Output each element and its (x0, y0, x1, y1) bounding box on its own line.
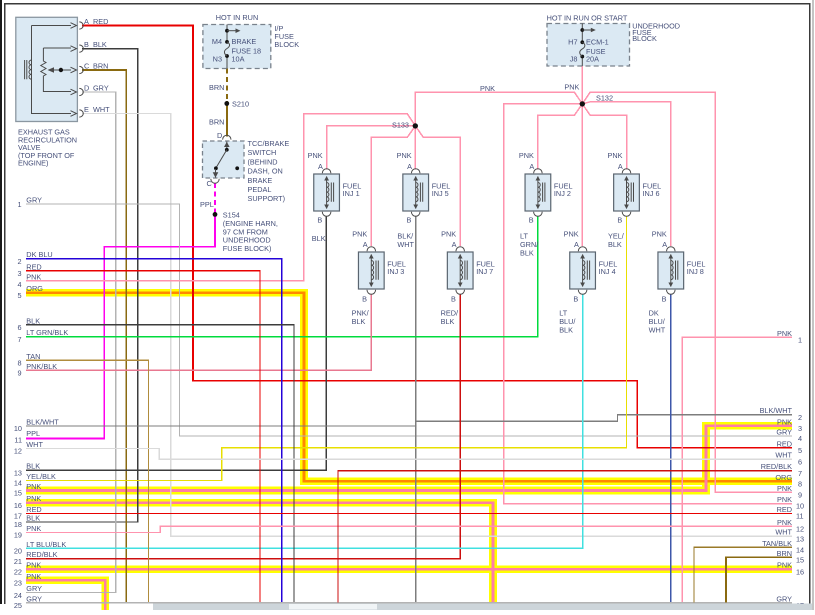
svg-text:B: B (317, 215, 322, 224)
svg-text:A: A (84, 17, 89, 26)
wire RED/BLK right7 (338, 471, 792, 603)
svg-text:S132: S132 (596, 94, 613, 103)
svg-text:PNK: PNK (26, 561, 41, 570)
wire PNK right1 (682, 337, 792, 602)
svg-text:SUPPORT): SUPPORT) (248, 194, 286, 203)
svg-text:15: 15 (14, 489, 22, 498)
svg-text:DK BLU: DK BLU (26, 250, 52, 259)
fuel injector INJ 3 (358, 247, 384, 295)
svg-text:PNK: PNK (26, 482, 41, 491)
svg-text:20: 20 (14, 547, 22, 556)
svg-text:PNK: PNK (441, 229, 456, 238)
svg-text:C: C (207, 179, 212, 188)
EGR wiper arm with arrow (50, 69, 72, 71)
svg-text:PEDAL: PEDAL (248, 185, 272, 194)
svg-text:13: 13 (796, 534, 804, 543)
svg-text:BLK: BLK (352, 317, 366, 326)
svg-text:HOT IN RUN: HOT IN RUN (216, 13, 258, 22)
EGR solenoid valve box (16, 17, 84, 121)
splice S132 (413, 123, 418, 128)
fuel injector INJ 8 (658, 247, 684, 295)
fuel injector INJ 7 (447, 247, 473, 295)
wire PPL S154 to left wire 11 PPL (26, 214, 215, 438)
switch pin C arc (211, 179, 219, 183)
svg-text:7: 7 (17, 335, 21, 344)
svg-text:WHT: WHT (775, 528, 792, 537)
svg-text:5: 5 (798, 446, 802, 455)
svg-text:PNK: PNK (397, 151, 412, 160)
svg-text:8: 8 (17, 359, 21, 368)
svg-text:RED: RED (26, 262, 41, 271)
svg-text:11: 11 (14, 436, 22, 445)
svg-text:LT GRN/BLK: LT GRN/BLK (26, 328, 68, 337)
svg-text:WHT: WHT (649, 325, 666, 334)
svg-text:PNK: PNK (607, 151, 622, 160)
svg-text:M4: M4 (212, 37, 222, 46)
svg-text:TAN: TAN (26, 352, 40, 361)
wire PNK S132 to fuel injector 6 (582, 104, 626, 169)
wire PNK S133 to fuel injector 5 (414, 126, 416, 169)
UNDERHOOD fuse block box (547, 24, 630, 67)
svg-text:16: 16 (14, 501, 22, 510)
svg-text:PPL: PPL (200, 200, 214, 209)
svg-text:INJ 5: INJ 5 (432, 189, 449, 198)
svg-text:INJ 8: INJ 8 (687, 267, 704, 276)
svg-text:BRAKE: BRAKE (232, 37, 257, 46)
wire PNK left15 to right3 highlight band (26, 426, 792, 491)
wire PNK core left23 (26, 580, 105, 610)
svg-text:PNK: PNK (26, 272, 41, 281)
wire ORG core left5 right8 (26, 293, 792, 482)
svg-text:B: B (662, 294, 667, 303)
svg-text:24: 24 (14, 591, 22, 600)
fuel injector INJ 2 (525, 169, 551, 217)
svg-text:C: C (84, 62, 89, 71)
svg-text:BRN: BRN (209, 83, 224, 92)
svg-text:12: 12 (14, 447, 22, 456)
wire PNK core left16 (26, 503, 493, 604)
svg-text:BRAKE: BRAKE (248, 176, 273, 185)
wire A RED: EGR pin A to right wire 5 RED (82, 26, 792, 448)
wire BRN dashed fuse to S210 (226, 69, 228, 102)
svg-text:PNK: PNK (352, 229, 367, 238)
EGR potentiometer resistor (41, 48, 71, 92)
svg-text:22: 22 (14, 567, 22, 576)
svg-text:WHT: WHT (775, 451, 792, 460)
svg-text:GRY: GRY (93, 84, 109, 93)
svg-text:1: 1 (798, 336, 802, 345)
svg-text:2: 2 (798, 413, 802, 422)
svg-text:23: 23 (14, 579, 22, 588)
wire PNK S132 to right wire 9 PNK (582, 92, 792, 492)
svg-text:RED: RED (93, 17, 108, 26)
wire PNK left19 to right12 (26, 526, 792, 532)
svg-text:RED: RED (777, 505, 792, 514)
svg-text:PNK: PNK (777, 417, 792, 426)
svg-text:B: B (617, 215, 622, 224)
svg-text:25: 25 (14, 601, 22, 610)
svg-text:11: 11 (796, 512, 804, 521)
wire PNK left16 highlight band (26, 503, 493, 604)
wire PNK S132 to fuel injector 8 (582, 102, 671, 246)
svg-text:INJ 2: INJ 2 (554, 189, 571, 198)
svg-text:TAN/BLK: TAN/BLK (762, 539, 792, 548)
fuel injector INJ 5 (403, 169, 429, 217)
svg-text:PNK/BLK: PNK/BLK (26, 362, 57, 371)
fuse ECM-1 FUSE 20A (580, 40, 584, 44)
svg-text:20A: 20A (586, 55, 599, 64)
wire LT BLU/BLK fuel injector 4 to left wire 20 (26, 295, 583, 549)
svg-text:A: A (318, 162, 323, 171)
horizontal scrollbar thumb (289, 604, 377, 610)
wire RED left3 (26, 271, 260, 603)
svg-text:GRY: GRY (26, 196, 42, 205)
wire GRY left1 to right wire 4 GRY (26, 204, 792, 436)
svg-text:YEL/BLK: YEL/BLK (26, 472, 56, 481)
svg-text:A: A (574, 240, 579, 249)
wire ORG circuit highlight band (26, 293, 792, 482)
wire PNK core left22 right16 (26, 568, 792, 571)
wire PNK core left15 right3 (26, 426, 792, 491)
svg-text:BLK: BLK (608, 240, 622, 249)
svg-text:PNK: PNK (26, 572, 41, 581)
svg-text:PNK: PNK (777, 329, 792, 338)
svg-text:14: 14 (796, 546, 804, 555)
svg-text:BLK: BLK (93, 40, 107, 49)
svg-text:ORG: ORG (26, 284, 43, 293)
svg-text:INJ 4: INJ 4 (599, 267, 616, 276)
wire RED left17 to right11 (26, 513, 792, 515)
svg-text:PNK: PNK (26, 494, 41, 503)
wire BRN right15 (726, 557, 792, 602)
switch pin D arc (223, 135, 231, 139)
fuel injector INJ 4 (570, 247, 596, 295)
svg-text:PNK: PNK (26, 524, 41, 533)
wire PNK S132 to fuel injector 4 (581, 104, 583, 246)
window left edge (0, 0, 2, 604)
wire PPL dashed switch pin C to S154 (214, 183, 216, 214)
svg-text:LT BLU/BLK: LT BLU/BLK (26, 540, 66, 549)
svg-text:ECM-1: ECM-1 (586, 38, 609, 47)
svg-text:RED: RED (777, 439, 792, 448)
wire E WHT: EGR pin E to right wire 13 WHT (82, 114, 792, 537)
fuel injector INJ 6 (614, 169, 640, 217)
svg-text:BLK: BLK (441, 317, 455, 326)
frame right (809, 3, 810, 610)
svg-text:S133: S133 (392, 121, 409, 130)
svg-text:DASH, ON: DASH, ON (248, 167, 283, 176)
svg-text:B: B (407, 215, 412, 224)
wire PNK S133 to fuel injector 3 (371, 126, 415, 246)
svg-text:19: 19 (14, 531, 22, 540)
svg-text:16: 16 (796, 567, 804, 576)
splice dots (224, 101, 229, 106)
fuse BRAKE FUSE 18 10A (225, 40, 229, 44)
svg-text:PNK: PNK (564, 229, 579, 238)
svg-text:HOT IN RUN OR START: HOT IN RUN OR START (547, 14, 628, 23)
svg-text:B: B (529, 215, 534, 224)
wire BLK fuel injector 1 to left wire 13 BLK (26, 216, 326, 470)
svg-text:A: A (662, 240, 667, 249)
wire C BRN: EGR pin C down (82, 70, 126, 603)
svg-text:WHT: WHT (93, 105, 110, 114)
wire PNK fuse ECM-1 to splice S132 (581, 66, 583, 104)
svg-text:14: 14 (14, 479, 22, 488)
EGR solenoid coil (29, 60, 32, 79)
svg-text:9: 9 (17, 369, 21, 378)
svg-text:3: 3 (798, 424, 802, 433)
splice S154 (580, 101, 585, 106)
svg-text:BLOCK: BLOCK (274, 40, 299, 49)
svg-text:PNK: PNK (777, 495, 792, 504)
wire PNK S133 to left wire 4 PNK (26, 114, 415, 281)
wire BLK/WHT right wire 2 (416, 415, 792, 422)
svg-text:BLK: BLK (520, 249, 534, 258)
wire WHT left12 to right6 (26, 448, 792, 459)
svg-text:D: D (217, 131, 222, 140)
I/P fuse block box (203, 25, 271, 69)
frame top (4, 3, 811, 4)
svg-text:12: 12 (796, 525, 804, 534)
svg-text:PNK: PNK (777, 561, 792, 570)
svg-text:PNK: PNK (777, 518, 792, 527)
svg-text:H7: H7 (568, 38, 577, 47)
svg-text:13: 13 (14, 468, 22, 477)
svg-text:7: 7 (798, 469, 802, 478)
EGR pin arrowheads and terminal arcs A-E (71, 22, 84, 117)
splice S133 (18, 13, 705, 334)
svg-text:B: B (573, 294, 578, 303)
svg-text:GRY: GRY (26, 594, 42, 603)
svg-text:SWITCH: SWITCH (248, 148, 277, 157)
svg-text:FUSE BLOCK): FUSE BLOCK) (223, 244, 272, 253)
svg-text:PNK: PNK (777, 484, 792, 493)
wire PNK S132 to fuel injector 2 (538, 104, 582, 169)
svg-text:GRY: GRY (776, 428, 792, 437)
wire PNK S133 to fuel injector 7 (415, 126, 460, 246)
svg-text:BRN: BRN (93, 62, 108, 71)
svg-text:E: E (84, 105, 89, 114)
svg-text:BLOCK: BLOCK (632, 34, 657, 43)
fuel injector INJ 1 (314, 169, 340, 217)
wire PNK S133 to fuel injector 1 (327, 126, 416, 169)
wire BLK/WHT left wire 10 (26, 425, 416, 427)
wire B BLK: EGR pin B to left wire 18 BLK (26, 49, 138, 522)
svg-text:A: A (452, 240, 457, 249)
svg-text:PNK: PNK (480, 84, 495, 93)
svg-text:5: 5 (17, 291, 21, 300)
wire D GRY: EGR pin D to left wire 24 GRY (26, 92, 116, 593)
svg-text:B: B (362, 294, 367, 303)
switch lever (226, 142, 228, 149)
wire BLK left6 (26, 325, 294, 603)
svg-text:RED/BLK: RED/BLK (26, 550, 57, 559)
svg-text:PNK: PNK (519, 151, 534, 160)
wire DK BLU/WHT fuel injector 8 down (670, 295, 672, 603)
svg-text:A: A (529, 162, 534, 171)
svg-text:ENGINE): ENGINE) (18, 159, 48, 168)
EGR internal wire A-E bus (32, 26, 72, 114)
svg-text:BLK/WHT: BLK/WHT (760, 406, 793, 415)
svg-text:4: 4 (798, 434, 802, 443)
svg-text:2: 2 (17, 257, 21, 266)
svg-text:D: D (84, 84, 89, 93)
wire PNK left23 highlight band (26, 580, 105, 610)
window right edge (812, 0, 813, 610)
frame left (4, 3, 5, 604)
wire BLK/WHT fuel injector 5 down (415, 216, 417, 603)
svg-text:INJ 3: INJ 3 (387, 267, 404, 276)
svg-text:A: A (618, 162, 623, 171)
svg-text:BRN: BRN (209, 118, 224, 127)
svg-text:J8: J8 (570, 55, 578, 64)
svg-text:PPL: PPL (26, 429, 40, 438)
splice S210 (213, 212, 218, 217)
svg-text:3: 3 (17, 269, 21, 278)
svg-text:WHT: WHT (397, 240, 414, 249)
horizontal scrollbar track (153, 603, 812, 610)
svg-text:BLK/WHT: BLK/WHT (26, 417, 59, 426)
svg-text:INJ 1: INJ 1 (343, 189, 360, 198)
svg-text:S210: S210 (232, 100, 249, 109)
svg-text:9: 9 (798, 491, 802, 500)
wire PNK S132 to S133 (415, 92, 582, 126)
svg-text:BLK: BLK (559, 325, 573, 334)
svg-text:BLK: BLK (26, 462, 40, 471)
svg-text:GRY: GRY (776, 594, 792, 603)
svg-text:RED/BLK: RED/BLK (761, 462, 792, 471)
svg-text:PNK: PNK (308, 151, 323, 160)
wire GRY left25 to right17 (26, 602, 792, 604)
svg-text:(BEHIND: (BEHIND (248, 157, 278, 166)
svg-text:21: 21 (14, 557, 22, 566)
svg-text:15: 15 (796, 556, 804, 565)
wire PNK/BLK fuel injector 3 to left wire 9 (26, 295, 371, 371)
TCC/BRAKE switch box (203, 135, 245, 183)
svg-text:INJ 6: INJ 6 (643, 189, 660, 198)
wire PNK left22 right16 highlight band (26, 565, 792, 573)
svg-text:A: A (363, 240, 368, 249)
svg-text:10: 10 (14, 424, 22, 433)
wire TAN/BLK right14 (694, 547, 792, 602)
svg-text:BLK: BLK (26, 514, 40, 523)
wire LT GRN/BLK fuel injector 2 to left wire 7 (26, 216, 538, 337)
svg-text:PNK: PNK (652, 229, 667, 238)
svg-text:ORG: ORG (775, 473, 792, 482)
wire TAN left8 (26, 360, 149, 603)
svg-text:B: B (451, 294, 456, 303)
svg-text:BLK: BLK (312, 234, 326, 243)
svg-text:PNK: PNK (564, 83, 579, 92)
svg-text:BRN: BRN (777, 549, 792, 558)
wire RED/BLK fuel injector 7 to left wire 21 (26, 295, 460, 559)
svg-text:A: A (407, 162, 412, 171)
svg-text:TCC/BRAKE: TCC/BRAKE (248, 139, 290, 148)
svg-text:6: 6 (798, 457, 802, 466)
svg-text:18: 18 (14, 520, 22, 529)
wire DK BLU left2 (26, 259, 282, 603)
svg-text:10A: 10A (232, 55, 245, 64)
svg-text:B: B (84, 40, 89, 49)
svg-text:WHT: WHT (26, 440, 43, 449)
svg-text:6: 6 (17, 323, 21, 332)
wire BRN S210 to switch pin D (226, 101, 228, 137)
wire PNK S132 to right wire 10 PNK (504, 104, 793, 504)
svg-text:BLK: BLK (26, 316, 40, 325)
svg-text:1: 1 (17, 200, 21, 209)
wire YEL/BLK fuel injector 6 to left wire 14 (26, 216, 627, 481)
svg-text:4: 4 (17, 280, 21, 289)
svg-text:10: 10 (796, 502, 804, 511)
svg-text:8: 8 (798, 480, 802, 489)
svg-text:INJ 7: INJ 7 (476, 267, 493, 276)
svg-text:GRY: GRY (26, 584, 42, 593)
svg-text:N3: N3 (213, 55, 222, 64)
